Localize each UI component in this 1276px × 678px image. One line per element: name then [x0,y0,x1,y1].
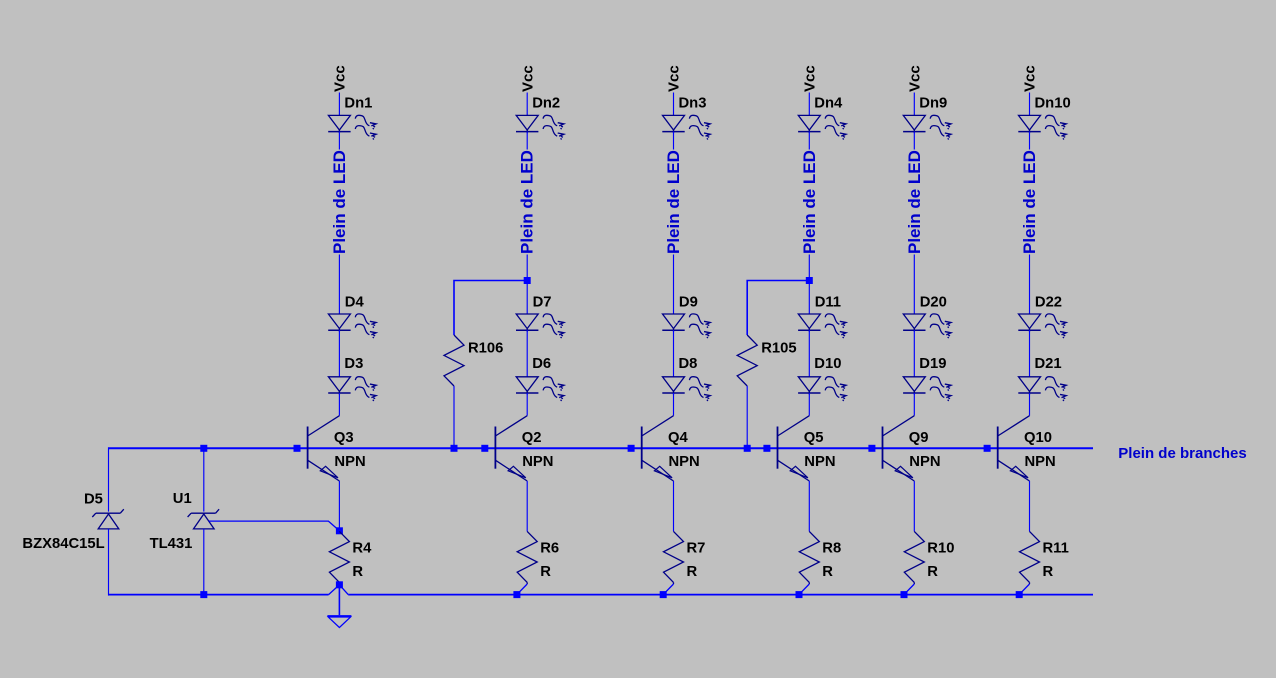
wire: Q5 emitter to R8 [808,481,810,531]
wire: R106 bottom lead [453,386,455,448]
LED D8 symbol [662,377,684,395]
LED D9 light ray 1 [689,314,710,328]
svg-text:Vcc: Vcc [1022,65,1039,92]
svg-text:Plein de LED: Plein de LED [330,150,349,254]
wire: D5 branch top [108,447,110,511]
svg-text:NPN: NPN [804,454,835,470]
wire: main base rail (Plein de branches net) [109,447,1094,449]
svg-text:NPN: NPN [1025,454,1056,470]
svg-text:Q9: Q9 [909,430,929,446]
LED D8 light ray 1 [689,377,710,391]
svg-text:Plein de LED: Plein de LED [800,150,819,254]
wire: bottom ground rail left of R4 [109,594,329,596]
LED Dn10 light ray 2 [1045,126,1066,140]
junction Q3 base [294,445,301,452]
resistor R8 [799,531,819,582]
svg-text:R11: R11 [1043,541,1069,557]
LED D6 symbol [516,377,538,395]
wire: Dn10 to net label [1029,132,1031,150]
wire: R6 stub [526,582,528,584]
wire: junction to ground symbol [338,585,340,615]
wire: U1 branch top [203,448,205,511]
svg-text:D22: D22 [1035,294,1062,310]
LED D9 light ray 2 [689,324,710,338]
wire: Vcc to Dn4 [808,93,810,116]
resistor R105 [737,335,757,386]
LED D20 light ray 2 [930,324,951,338]
transistor Q2 [495,416,527,481]
svg-text:NPN: NPN [522,454,553,470]
junction R6 bottom [513,591,520,598]
wire: net label to D4 [338,255,340,315]
svg-text:R6: R6 [540,541,559,557]
svg-text:Dn3: Dn3 [679,96,707,112]
wire: net label to D9 [673,255,675,315]
LED D4 light ray 1 [355,314,376,328]
wire: U1 reference to R4 top [209,521,340,531]
LED D7 light ray 1 [543,314,564,328]
wire: net label to D20 [913,255,915,315]
LED Dn10 symbol [1018,115,1040,133]
svg-text:R: R [687,564,698,580]
wire: D9 to D8 [673,330,675,377]
LED D20 light ray 1 [930,314,951,328]
wire: R7 stub [673,582,675,584]
shunt regulator U1 zener symbol [188,509,220,529]
wire: Dn2 to net label [526,132,528,150]
wire: D10 to Q5 collector [808,393,810,416]
LED Dn9 light ray 2 [930,126,951,140]
transistor Q9 [883,416,915,481]
wire: Dn9 to net label [913,132,915,150]
LED D19 light ray 2 [930,387,951,401]
LED D20 symbol [903,314,925,332]
wire: Vcc to Dn9 [913,93,915,116]
junction R7 bottom [660,591,667,598]
svg-text:D7: D7 [533,294,552,310]
svg-text:Q3: Q3 [334,430,354,446]
LED Dn4 light ray 1 [825,115,846,129]
LED D22 light ray 2 [1045,324,1066,338]
wire: R8 to bottom rail [799,584,809,595]
wire: Q10 emitter to R11 [1029,481,1031,531]
wire: net label to D11 [808,255,810,315]
LED D7 symbol [516,314,538,332]
LED Dn3 symbol [662,115,684,133]
junction R4 top (U1 ref) [336,527,343,534]
wire: Vcc to Dn10 [1029,93,1031,116]
svg-text:Vcc: Vcc [332,65,349,92]
svg-text:R4: R4 [352,541,372,557]
junction R8 bottom [796,591,803,598]
junction U1 bottom [200,591,207,598]
junction Q5 base [763,445,770,452]
svg-text:D19: D19 [919,356,946,372]
LED D3 light ray 1 [355,377,376,391]
svg-text:R10: R10 [927,541,954,557]
wire: R4 stub [338,582,340,584]
resistor R7 [664,531,684,582]
wire: net label to D7 [526,255,528,315]
wire: R8 stub [808,582,810,584]
svg-text:R: R [540,564,551,580]
junction Q2 base [481,445,488,452]
wire: R10 to bottom rail [904,584,914,595]
LED Dn1 light ray 2 [355,126,376,140]
wire: R4 to ground junction [338,583,340,586]
svg-text:D3: D3 [344,356,363,372]
resistor R106 [444,335,464,386]
wire: R11 to bottom rail [1019,584,1029,595]
wire: Dn4 to net label [808,132,810,150]
wire: R106 top connection [454,281,527,336]
svg-text:Vcc: Vcc [519,65,536,92]
LED D10 light ray 2 [825,387,846,401]
LED Dn9 light ray 1 [930,115,951,129]
LED D10 symbol [798,377,820,395]
transistor Q5 [778,416,810,481]
wire: net label to D22 [1029,255,1031,315]
resistor R11 [1020,531,1040,582]
LED D8 light ray 2 [689,387,710,401]
LED D6 light ray 1 [543,377,564,391]
wire: Vcc to Dn1 [338,93,340,116]
junction R106 top on LED column [524,277,531,284]
svg-text:R105: R105 [761,340,796,356]
wire: R6 to bottom rail [517,584,527,595]
svg-text:R: R [927,564,938,580]
LED D3 light ray 2 [355,387,376,401]
wire: R105 bottom lead [746,386,748,448]
wire: D8 to Q4 collector [673,393,675,416]
wire: Q3 emitter to R4 [338,481,340,531]
svg-text:NPN: NPN [909,454,940,470]
junction U1 top [200,445,207,452]
wire: R10 stub [913,582,915,584]
wire: Q9 emitter to R10 [913,481,915,531]
LED D11 symbol [798,314,820,332]
wire: D7 to D6 [526,330,528,377]
svg-text:D8: D8 [679,356,698,372]
LED Dn2 light ray 1 [543,115,564,129]
wire: Vcc to Dn3 [673,93,675,116]
LED D6 light ray 2 [543,387,564,401]
wire: R11 stub [1029,582,1031,584]
wire: R7 to bottom rail [663,584,673,595]
LED D4 symbol [328,314,350,332]
resistor R4 [329,531,349,582]
LED D21 light ray 1 [1045,377,1066,391]
svg-text:BZX84C15L: BZX84C15L [22,536,104,552]
wire: Dn3 to net label [673,132,675,150]
svg-text:Plein de branches: Plein de branches [1118,445,1246,462]
svg-text:Vcc: Vcc [907,65,924,92]
LED Dn4 light ray 2 [825,126,846,140]
svg-text:Plein de LED: Plein de LED [1020,150,1039,254]
svg-text:R: R [1043,564,1054,580]
svg-text:Dn2: Dn2 [532,96,560,112]
svg-text:R8: R8 [822,541,841,557]
svg-text:Dn10: Dn10 [1035,96,1071,112]
wire: D22 to D21 [1029,330,1031,377]
svg-text:D9: D9 [679,294,698,310]
wire: D19 to Q9 collector [913,393,915,416]
svg-text:D21: D21 [1035,356,1062,372]
wire: D4 to D3 [338,330,340,377]
junction R106 on base rail [451,445,458,452]
LED D11 light ray 2 [825,324,846,338]
wire: Dn1 to net label [338,132,340,150]
junction Q9 base [868,445,875,452]
LED Dn10 light ray 1 [1045,115,1066,129]
junction R10 bottom [901,591,908,598]
svg-text:R7: R7 [687,541,706,557]
LED Dn2 light ray 2 [543,126,564,140]
svg-text:Q4: Q4 [668,430,689,446]
LED Dn9 symbol [903,115,925,133]
wire: Q4 emitter to R7 [673,481,675,531]
LED Dn2 symbol [516,115,538,133]
junction Q4 base [628,445,635,452]
svg-text:NPN: NPN [334,454,365,470]
svg-text:Dn1: Dn1 [344,96,372,112]
transistor Q4 [642,416,674,481]
LED D3 symbol [328,377,350,395]
LED D19 symbol [903,377,925,395]
junction R11 bottom [1016,591,1023,598]
LED Dn3 light ray 1 [689,115,710,129]
transistor Q3 [308,416,340,481]
wire: Vcc to Dn2 [526,93,528,116]
LED D10 light ray 1 [825,377,846,391]
LED D11 light ray 1 [825,314,846,328]
svg-text:U1: U1 [173,491,192,507]
svg-text:D6: D6 [532,356,551,372]
junction R105 on base rail [744,445,751,452]
svg-text:D5: D5 [84,492,103,508]
LED D19 light ray 1 [930,377,951,391]
wire: D11 to D10 [808,330,810,377]
wire: D6 to Q2 collector [526,393,528,416]
wire: Q2 emitter to R6 [526,481,528,531]
zener D5 zener symbol [92,509,124,529]
LED D22 light ray 1 [1045,314,1066,328]
transistor Q10 [998,416,1030,481]
junction R4 bottom / ground [336,581,343,588]
svg-text:TL431: TL431 [150,536,193,552]
svg-text:Vcc: Vcc [802,65,819,92]
junction Q10 base [984,445,991,452]
wire: D5 branch bottom [108,529,110,596]
wire: D20 to D19 [913,330,915,377]
LED D21 light ray 2 [1045,387,1066,401]
svg-text:Dn4: Dn4 [814,96,843,112]
svg-text:Plein de LED: Plein de LED [518,150,537,254]
svg-text:D20: D20 [920,294,947,310]
svg-text:Plein de LED: Plein de LED [905,150,924,254]
wire: D21 to Q10 collector [1029,393,1031,416]
LED Dn4 symbol [798,115,820,133]
svg-text:Plein de LED: Plein de LED [664,150,683,254]
svg-text:R: R [352,564,363,580]
svg-text:Vcc: Vcc [666,65,683,92]
LED Dn1 light ray 1 [355,115,376,129]
wire: R105 top connection [747,281,809,336]
svg-text:D11: D11 [815,294,841,310]
svg-text:NPN: NPN [669,454,700,470]
svg-text:D4: D4 [345,294,365,310]
svg-text:D10: D10 [814,356,841,372]
svg-text:Q10: Q10 [1024,430,1052,446]
LED D9 symbol [662,314,684,332]
LED Dn3 light ray 2 [689,126,710,140]
LED D7 light ray 2 [543,324,564,338]
svg-text:Q5: Q5 [804,430,824,446]
LED D4 light ray 2 [355,324,376,338]
resistor R10 [904,531,924,582]
LED D21 symbol [1018,377,1040,395]
wire: U1 branch bottom [203,529,205,595]
LED D22 symbol [1018,314,1040,332]
svg-text:R106: R106 [468,340,503,356]
svg-text:Dn9: Dn9 [919,96,947,112]
ground [327,616,351,628]
junction R105 top on LED column [806,277,813,284]
LED Dn1 symbol [328,115,350,133]
wire: D3 to Q3 collector [338,393,340,416]
svg-text:R: R [822,564,833,580]
resistor R6 [517,531,537,582]
svg-text:Q2: Q2 [522,430,542,446]
